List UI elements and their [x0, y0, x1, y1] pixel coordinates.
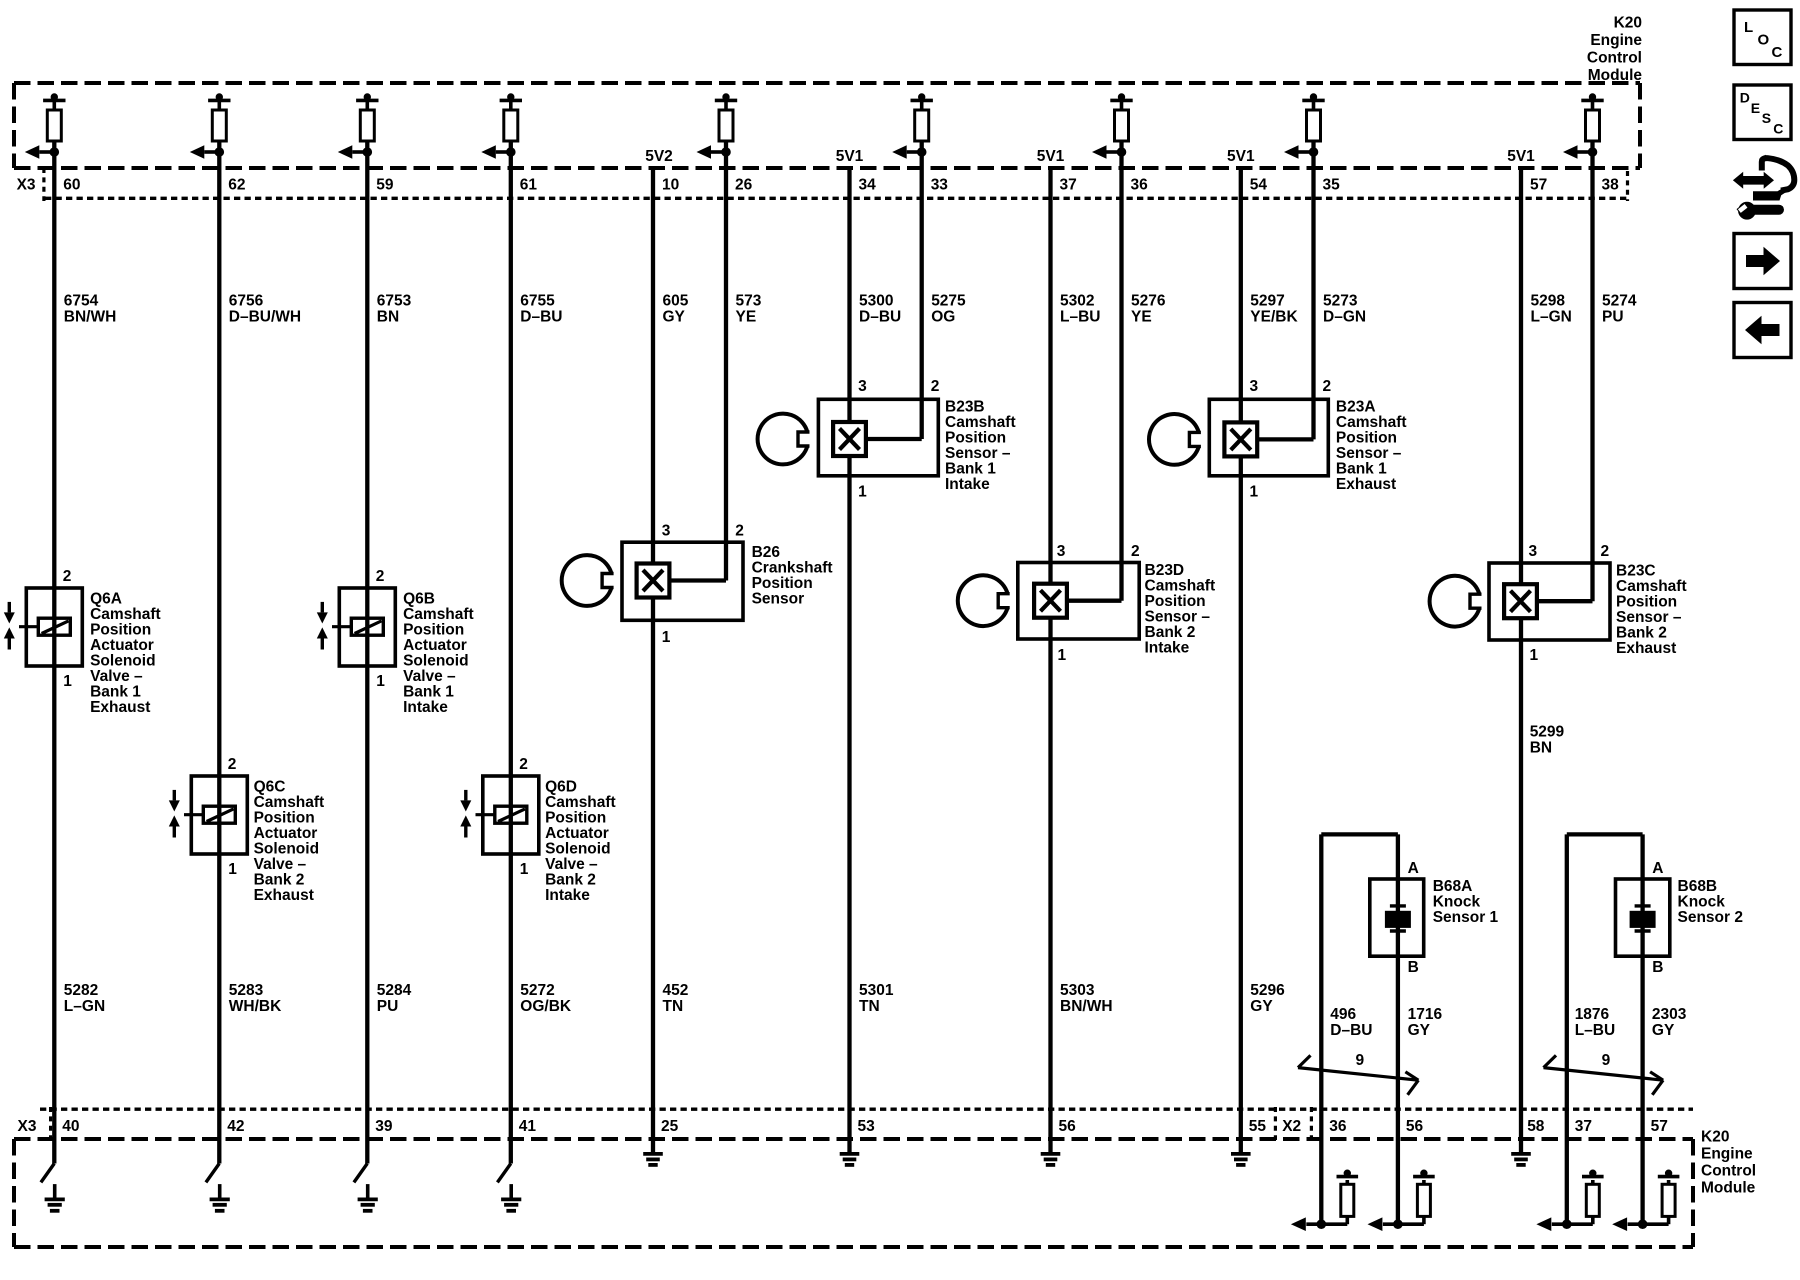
svg-text:Bank 2: Bank 2: [254, 871, 305, 888]
wire 6753 BN (pin 59 to Q6B pin 2): [365, 168, 369, 588]
svg-text:Intake: Intake: [545, 887, 590, 904]
svg-text:Knock: Knock: [1678, 893, 1726, 910]
svg-text:Sensor –: Sensor –: [1616, 609, 1682, 626]
resistor R2 (ECM pull-up, pin 62): [190, 94, 231, 168]
svg-text:2: 2: [228, 756, 237, 773]
svg-text:5299: 5299: [1530, 724, 1565, 741]
svg-text:OG: OG: [931, 308, 955, 325]
svg-text:5282: 5282: [64, 982, 98, 999]
svg-text:Camshaft: Camshaft: [90, 606, 161, 623]
svg-text:1: 1: [520, 861, 529, 878]
svg-text:X2: X2: [1282, 1118, 1301, 1135]
svg-text:5V2: 5V2: [645, 148, 673, 165]
svg-text:36: 36: [1329, 1118, 1347, 1135]
svg-text:62: 62: [228, 176, 245, 193]
svg-text:26: 26: [735, 176, 753, 193]
svg-text:L: L: [1744, 19, 1753, 36]
svg-text:5275: 5275: [931, 292, 966, 309]
svg-text:Q6A: Q6A: [90, 590, 122, 607]
svg-text:A: A: [1408, 860, 1419, 877]
wire 1716 GY (B68A pin B to pin X2-56): [1396, 834, 1400, 1139]
svg-text:36: 36: [1131, 176, 1149, 193]
svg-text:Actuator: Actuator: [254, 825, 318, 842]
svg-text:9: 9: [1602, 1052, 1611, 1069]
svg-text:5284: 5284: [377, 982, 412, 999]
resistor R1 (ECM pull-up, pin 60): [25, 94, 66, 168]
svg-text:B23D: B23D: [1145, 562, 1185, 579]
svg-text:B26: B26: [752, 544, 781, 561]
svg-text:5272: 5272: [520, 982, 554, 999]
K20 Engine Control Module box (top): [14, 81, 1640, 85]
svg-text:5274: 5274: [1602, 292, 1637, 309]
connector row (bottom) dotted line: [40, 1107, 1693, 1110]
svg-text:Knock: Knock: [1433, 893, 1481, 910]
resistor + output arrow (ECM pin 56): [1368, 1139, 1435, 1231]
ground (pin 42, switched): [206, 1139, 230, 1211]
svg-text:5V1: 5V1: [1227, 148, 1255, 165]
svg-text:573: 573: [736, 292, 762, 309]
svg-text:B: B: [1408, 959, 1419, 976]
svg-text:D–BU: D–BU: [1330, 1022, 1372, 1039]
connector X3 row (top) dotted line: [45, 197, 1628, 200]
sensor B23C Camshaft Position Sensor Bank 2 Exhaust: [1430, 563, 1610, 640]
svg-text:2: 2: [1601, 543, 1610, 560]
wire 5301 TN (B23B pin 1 to pin 53): [847, 456, 851, 1139]
sensor B23A Camshaft Position Sensor Bank 1 Exhaust: [1149, 399, 1328, 476]
svg-text:40: 40: [62, 1118, 79, 1135]
svg-text:605: 605: [663, 292, 689, 309]
svg-text:B68A: B68A: [1433, 878, 1473, 895]
svg-text:D–BU/WH: D–BU/WH: [229, 308, 301, 325]
wire 496 D-BU (B68A pin A to pin X2-36): [1319, 834, 1323, 1139]
twisted pair 9 (B68B): [1544, 1068, 1664, 1081]
svg-text:37: 37: [1060, 176, 1077, 193]
svg-text:3: 3: [1057, 543, 1066, 560]
svg-text:25: 25: [661, 1118, 679, 1135]
svg-text:O: O: [1758, 32, 1770, 49]
svg-text:57: 57: [1530, 176, 1547, 193]
wire 6756 D-BU/WH (pin 62 to Q6C pin 2): [217, 168, 221, 776]
ground (pin 25): [643, 1139, 663, 1165]
svg-text:Actuator: Actuator: [90, 637, 154, 654]
resistor R5 (ECM pull-up, pin 26): [697, 94, 738, 168]
wire 5298 L-GN (pin 57 to B23C pin 3): [1519, 168, 1523, 584]
svg-text:6754: 6754: [64, 292, 99, 309]
svg-text:C: C: [1772, 44, 1783, 61]
svg-text:Crankshaft: Crankshaft: [752, 559, 833, 576]
svg-text:1: 1: [376, 673, 385, 690]
svg-text:BN/WH: BN/WH: [64, 308, 117, 325]
svg-text:Position: Position: [1336, 430, 1397, 447]
svg-text:OG/BK: OG/BK: [520, 998, 572, 1015]
svg-text:Position: Position: [254, 809, 315, 826]
wire 5296 GY (B23A pin 1 to pin 55): [1239, 456, 1243, 1139]
svg-text:59: 59: [376, 176, 394, 193]
svg-text:5V1: 5V1: [836, 148, 864, 165]
svg-text:496: 496: [1330, 1006, 1356, 1023]
svg-text:37: 37: [1575, 1118, 1592, 1135]
svg-text:Bank 1: Bank 1: [403, 683, 454, 700]
svg-text:56: 56: [1406, 1118, 1424, 1135]
svg-text:GY: GY: [1652, 1022, 1675, 1039]
svg-text:Control: Control: [1701, 1163, 1756, 1180]
svg-text:6756: 6756: [229, 292, 264, 309]
svg-text:33: 33: [931, 176, 949, 193]
svg-text:1: 1: [662, 629, 671, 646]
sensor B26 Crankshaft Position Sensor: [562, 542, 743, 620]
wire 5303 BN/WH (B23D pin 1 to pin 56): [1048, 618, 1052, 1139]
X3 divider (bottom): [49, 1107, 52, 1140]
svg-text:Intake: Intake: [403, 699, 448, 716]
svg-text:BN: BN: [377, 308, 399, 325]
svg-text:Solenoid: Solenoid: [545, 840, 610, 857]
svg-text:Intake: Intake: [945, 476, 990, 493]
svg-text:PU: PU: [1602, 308, 1624, 325]
resistor + output arrow (ECM pin 37): [1536, 1139, 1603, 1231]
svg-text:Solenoid: Solenoid: [254, 840, 319, 857]
resistor + output arrow (ECM pin 36): [1291, 1139, 1358, 1231]
wire 5284 PU (Q6B pin 1 to pin 39): [365, 666, 369, 1139]
forward arrow box: [1734, 234, 1791, 289]
svg-text:Solenoid: Solenoid: [403, 652, 468, 669]
svg-text:Actuator: Actuator: [403, 637, 467, 654]
svg-text:Bank 1: Bank 1: [945, 461, 996, 478]
svg-text:2: 2: [1323, 378, 1332, 395]
svg-text:BN: BN: [1530, 740, 1552, 757]
svg-text:Valve –: Valve –: [545, 856, 598, 873]
ground (pin 40, switched): [41, 1139, 65, 1211]
svg-text:1: 1: [1058, 647, 1067, 664]
solenoid valve Q6B: [317, 588, 396, 666]
svg-text:2: 2: [519, 756, 528, 773]
svg-text:YE: YE: [736, 308, 757, 325]
svg-text:D–BU: D–BU: [859, 308, 901, 325]
K20 Engine Control Module box (bottom): [14, 1137, 1693, 1141]
svg-text:Position: Position: [752, 575, 813, 592]
svg-text:39: 39: [375, 1118, 393, 1135]
svg-text:5296: 5296: [1250, 982, 1285, 999]
svg-text:1: 1: [228, 861, 237, 878]
svg-text:Control: Control: [1587, 50, 1642, 67]
svg-text:Camshaft: Camshaft: [545, 794, 616, 811]
svg-text:61: 61: [520, 176, 538, 193]
svg-text:WH/BK: WH/BK: [229, 998, 282, 1015]
svg-text:Module: Module: [1588, 67, 1643, 84]
wire 5275 OG (pin 33 to B23B pin 2): [920, 168, 924, 439]
svg-text:S: S: [1762, 110, 1771, 126]
X3 divider (top): [42, 168, 45, 201]
svg-text:L–GN: L–GN: [64, 998, 105, 1015]
resistor R7 (ECM pull-up, pin 36): [1092, 94, 1133, 168]
svg-text:Position: Position: [403, 621, 464, 638]
svg-text:41: 41: [519, 1118, 537, 1135]
service/repair icon (double arrow + wrench): [1733, 155, 1794, 219]
svg-text:54: 54: [1250, 176, 1268, 193]
svg-text:Valve –: Valve –: [90, 668, 143, 685]
svg-text:5303: 5303: [1060, 982, 1095, 999]
svg-text:6753: 6753: [377, 292, 412, 309]
svg-text:Exhaust: Exhaust: [254, 887, 314, 904]
wire 5282 L-GN (Q6A pin 1 to pin 40): [52, 666, 56, 1139]
wire 6754 BN/WH (pin 60 to Q6A pin 2): [52, 168, 56, 588]
svg-text:L–BU: L–BU: [1060, 308, 1100, 325]
knock sensor B68A: [1370, 879, 1424, 956]
svg-text:Engine: Engine: [1701, 1146, 1753, 1163]
resistor + output arrow (ECM pin 57): [1612, 1139, 1679, 1231]
svg-text:Valve –: Valve –: [403, 668, 456, 685]
svg-text:452: 452: [663, 982, 689, 999]
svg-text:5302: 5302: [1060, 292, 1094, 309]
wire 452 TN (B26 pin 1 to pin 25): [651, 598, 655, 1139]
svg-text:Q6C: Q6C: [254, 778, 286, 795]
svg-text:Camshaft: Camshaft: [1616, 578, 1687, 595]
svg-text:42: 42: [227, 1118, 244, 1135]
svg-text:9: 9: [1356, 1052, 1365, 1069]
wire 573 YE (pin 26 to B26 pin 2): [724, 168, 728, 581]
ground (pin 41, switched): [497, 1139, 521, 1211]
svg-text:Valve –: Valve –: [254, 856, 307, 873]
svg-text:C: C: [1773, 120, 1783, 136]
wire 1876 L-BU (B68B pin A to pin X2-37): [1565, 834, 1569, 1139]
wire 5273 D-GN (pin 35 to B23A pin 2): [1311, 168, 1315, 439]
svg-text:6755: 6755: [520, 292, 555, 309]
svg-text:60: 60: [63, 176, 80, 193]
svg-text:TN: TN: [859, 998, 880, 1015]
svg-text:1: 1: [858, 483, 867, 500]
sensor B23B Camshaft Position Sensor Bank 1 Intake: [758, 399, 939, 476]
svg-text:5V1: 5V1: [1507, 148, 1535, 165]
wire 5302 L-BU (pin 37 to B23D pin 3): [1048, 168, 1052, 584]
svg-text:56: 56: [1059, 1118, 1077, 1135]
resistor R8 (ECM pull-up, pin 35): [1284, 94, 1325, 168]
knock sensor B68B: [1616, 879, 1670, 956]
svg-text:Actuator: Actuator: [545, 825, 609, 842]
wire 5297 YE/BK (pin 54 to B23A pin 3): [1239, 168, 1243, 422]
svg-text:1: 1: [1250, 483, 1259, 500]
svg-text:YE/BK: YE/BK: [1250, 308, 1298, 325]
svg-text:5276: 5276: [1131, 292, 1166, 309]
svg-text:D–GN: D–GN: [1323, 308, 1366, 325]
svg-text:Camshaft: Camshaft: [945, 414, 1016, 431]
svg-text:5300: 5300: [859, 292, 893, 309]
svg-text:1: 1: [63, 673, 72, 690]
svg-text:Sensor –: Sensor –: [945, 445, 1011, 462]
svg-text:58: 58: [1527, 1118, 1545, 1135]
svg-text:Camshaft: Camshaft: [403, 606, 474, 623]
svg-text:2: 2: [376, 568, 385, 585]
svg-text:PU: PU: [377, 998, 399, 1015]
svg-text:55: 55: [1249, 1118, 1267, 1135]
svg-text:A: A: [1652, 860, 1663, 877]
wire 5283 WH/BK (Q6C pin 1 to pin 42): [217, 854, 221, 1139]
svg-text:BN/WH: BN/WH: [1060, 998, 1113, 1015]
svg-text:X3: X3: [18, 1118, 37, 1135]
wire 5299 BN (B23C pin 1 to pin 58): [1519, 618, 1523, 1139]
ground (pin 58): [1511, 1139, 1531, 1165]
svg-text:5283: 5283: [229, 982, 264, 999]
svg-text:Camshaft: Camshaft: [1145, 577, 1216, 594]
svg-text:5V1: 5V1: [1037, 148, 1065, 165]
svg-text:Position: Position: [1145, 593, 1206, 610]
svg-text:K20: K20: [1701, 1129, 1729, 1146]
ground (pin 39, switched): [354, 1139, 378, 1211]
svg-text:Bank 1: Bank 1: [1336, 461, 1387, 478]
svg-text:Position: Position: [90, 621, 151, 638]
svg-text:GY: GY: [1250, 998, 1273, 1015]
svg-text:Sensor –: Sensor –: [1145, 608, 1211, 625]
svg-text:Q6D: Q6D: [545, 778, 577, 795]
solenoid valve Q6D: [460, 776, 539, 854]
svg-text:D–BU: D–BU: [520, 308, 562, 325]
svg-text:5298: 5298: [1531, 292, 1566, 309]
svg-text:B23C: B23C: [1616, 563, 1656, 580]
wire 605 GY (pin 10 to B26 pin 3): [651, 168, 655, 564]
svg-text:2: 2: [63, 568, 72, 585]
svg-text:2: 2: [1131, 543, 1140, 560]
svg-text:53: 53: [858, 1118, 876, 1135]
resistor R9 (ECM pull-up, pin 38): [1563, 94, 1604, 168]
svg-text:3: 3: [1529, 543, 1538, 560]
svg-text:Exhaust: Exhaust: [90, 699, 150, 716]
svg-text:Module: Module: [1701, 1180, 1756, 1197]
svg-text:Bank 2: Bank 2: [1616, 625, 1667, 642]
svg-text:Camshaft: Camshaft: [1336, 414, 1407, 431]
svg-text:5301: 5301: [859, 982, 894, 999]
svg-text:Bank 2: Bank 2: [545, 871, 596, 888]
svg-text:2: 2: [931, 378, 940, 395]
wire 2303 GY (B68B pin B to pin X2-57): [1640, 834, 1644, 1139]
svg-text:1716: 1716: [1408, 1006, 1443, 1023]
svg-text:35: 35: [1323, 176, 1341, 193]
svg-text:Position: Position: [545, 809, 606, 826]
wire 5276 YE (pin 36 to B23D pin 2): [1119, 168, 1123, 601]
svg-text:E: E: [1751, 100, 1760, 116]
svg-text:B23A: B23A: [1336, 399, 1376, 416]
svg-text:GY: GY: [663, 308, 686, 325]
svg-text:L–GN: L–GN: [1531, 308, 1572, 325]
svg-text:5297: 5297: [1250, 292, 1284, 309]
ground (pin 55): [1231, 1139, 1251, 1165]
svg-text:Position: Position: [1616, 594, 1677, 611]
X2 dividers: [1274, 1107, 1277, 1140]
svg-text:B: B: [1652, 959, 1663, 976]
svg-text:3: 3: [858, 378, 867, 395]
svg-text:Sensor: Sensor: [752, 590, 805, 607]
svg-text:5273: 5273: [1323, 292, 1358, 309]
svg-text:Camshaft: Camshaft: [254, 794, 325, 811]
svg-text:38: 38: [1602, 176, 1620, 193]
twisted pair 9 (B68A): [1298, 1068, 1418, 1081]
ground (pin 56): [1041, 1139, 1061, 1165]
svg-text:2: 2: [735, 522, 744, 539]
svg-text:Exhaust: Exhaust: [1616, 640, 1676, 657]
svg-text:Solenoid: Solenoid: [90, 652, 155, 669]
svg-text:K20: K20: [1614, 14, 1642, 31]
wire 5274 PU (pin 38 to B23C pin 2): [1590, 168, 1594, 601]
DESC legend box: [1734, 85, 1791, 140]
resistor R6 (ECM pull-up, pin 33): [892, 94, 933, 168]
svg-text:Exhaust: Exhaust: [1336, 476, 1396, 493]
svg-text:Sensor 2: Sensor 2: [1678, 909, 1743, 926]
wire 6755 D-BU (pin 61 to Q6D pin 2): [509, 168, 513, 776]
resistor R4 (ECM pull-up, pin 61): [481, 94, 522, 168]
svg-text:Engine: Engine: [1590, 32, 1642, 49]
sensor B23D Camshaft Position Sensor Bank 2 Intake: [958, 563, 1139, 640]
svg-text:2303: 2303: [1652, 1006, 1687, 1023]
LOC legend box: [1734, 10, 1791, 65]
svg-text:Intake: Intake: [1145, 639, 1190, 656]
solenoid valve Q6A: [4, 588, 83, 666]
svg-text:Sensor –: Sensor –: [1336, 445, 1402, 462]
svg-text:1: 1: [1530, 647, 1539, 664]
svg-text:B68B: B68B: [1678, 878, 1718, 895]
ground (pin 53): [840, 1139, 860, 1165]
svg-text:Bank 1: Bank 1: [90, 683, 141, 700]
svg-text:TN: TN: [663, 998, 684, 1015]
back arrow box: [1734, 303, 1791, 358]
svg-text:3: 3: [662, 522, 671, 539]
connector row right bracket (top): [1626, 171, 1629, 201]
svg-text:D: D: [1740, 90, 1750, 106]
svg-text:L–BU: L–BU: [1575, 1022, 1615, 1039]
svg-text:Position: Position: [945, 430, 1006, 447]
svg-text:Q6B: Q6B: [403, 590, 435, 607]
solenoid valve Q6C: [169, 776, 248, 854]
svg-text:X3: X3: [17, 176, 36, 193]
svg-text:Sensor 1: Sensor 1: [1433, 909, 1499, 926]
svg-text:10: 10: [662, 176, 679, 193]
svg-text:1876: 1876: [1575, 1006, 1610, 1023]
wire 5300 D-BU (pin 34 to B23B pin 3): [847, 168, 851, 422]
svg-text:B23B: B23B: [945, 399, 985, 416]
wire 5272 OG/BK (Q6D pin 1 to pin 41): [509, 854, 513, 1139]
svg-text:34: 34: [859, 176, 877, 193]
resistor R3 (ECM pull-up, pin 59): [338, 94, 379, 168]
svg-text:57: 57: [1651, 1118, 1668, 1135]
svg-text:3: 3: [1250, 378, 1259, 395]
svg-text:YE: YE: [1131, 308, 1152, 325]
svg-text:Bank 2: Bank 2: [1145, 624, 1196, 641]
svg-text:GY: GY: [1408, 1022, 1431, 1039]
